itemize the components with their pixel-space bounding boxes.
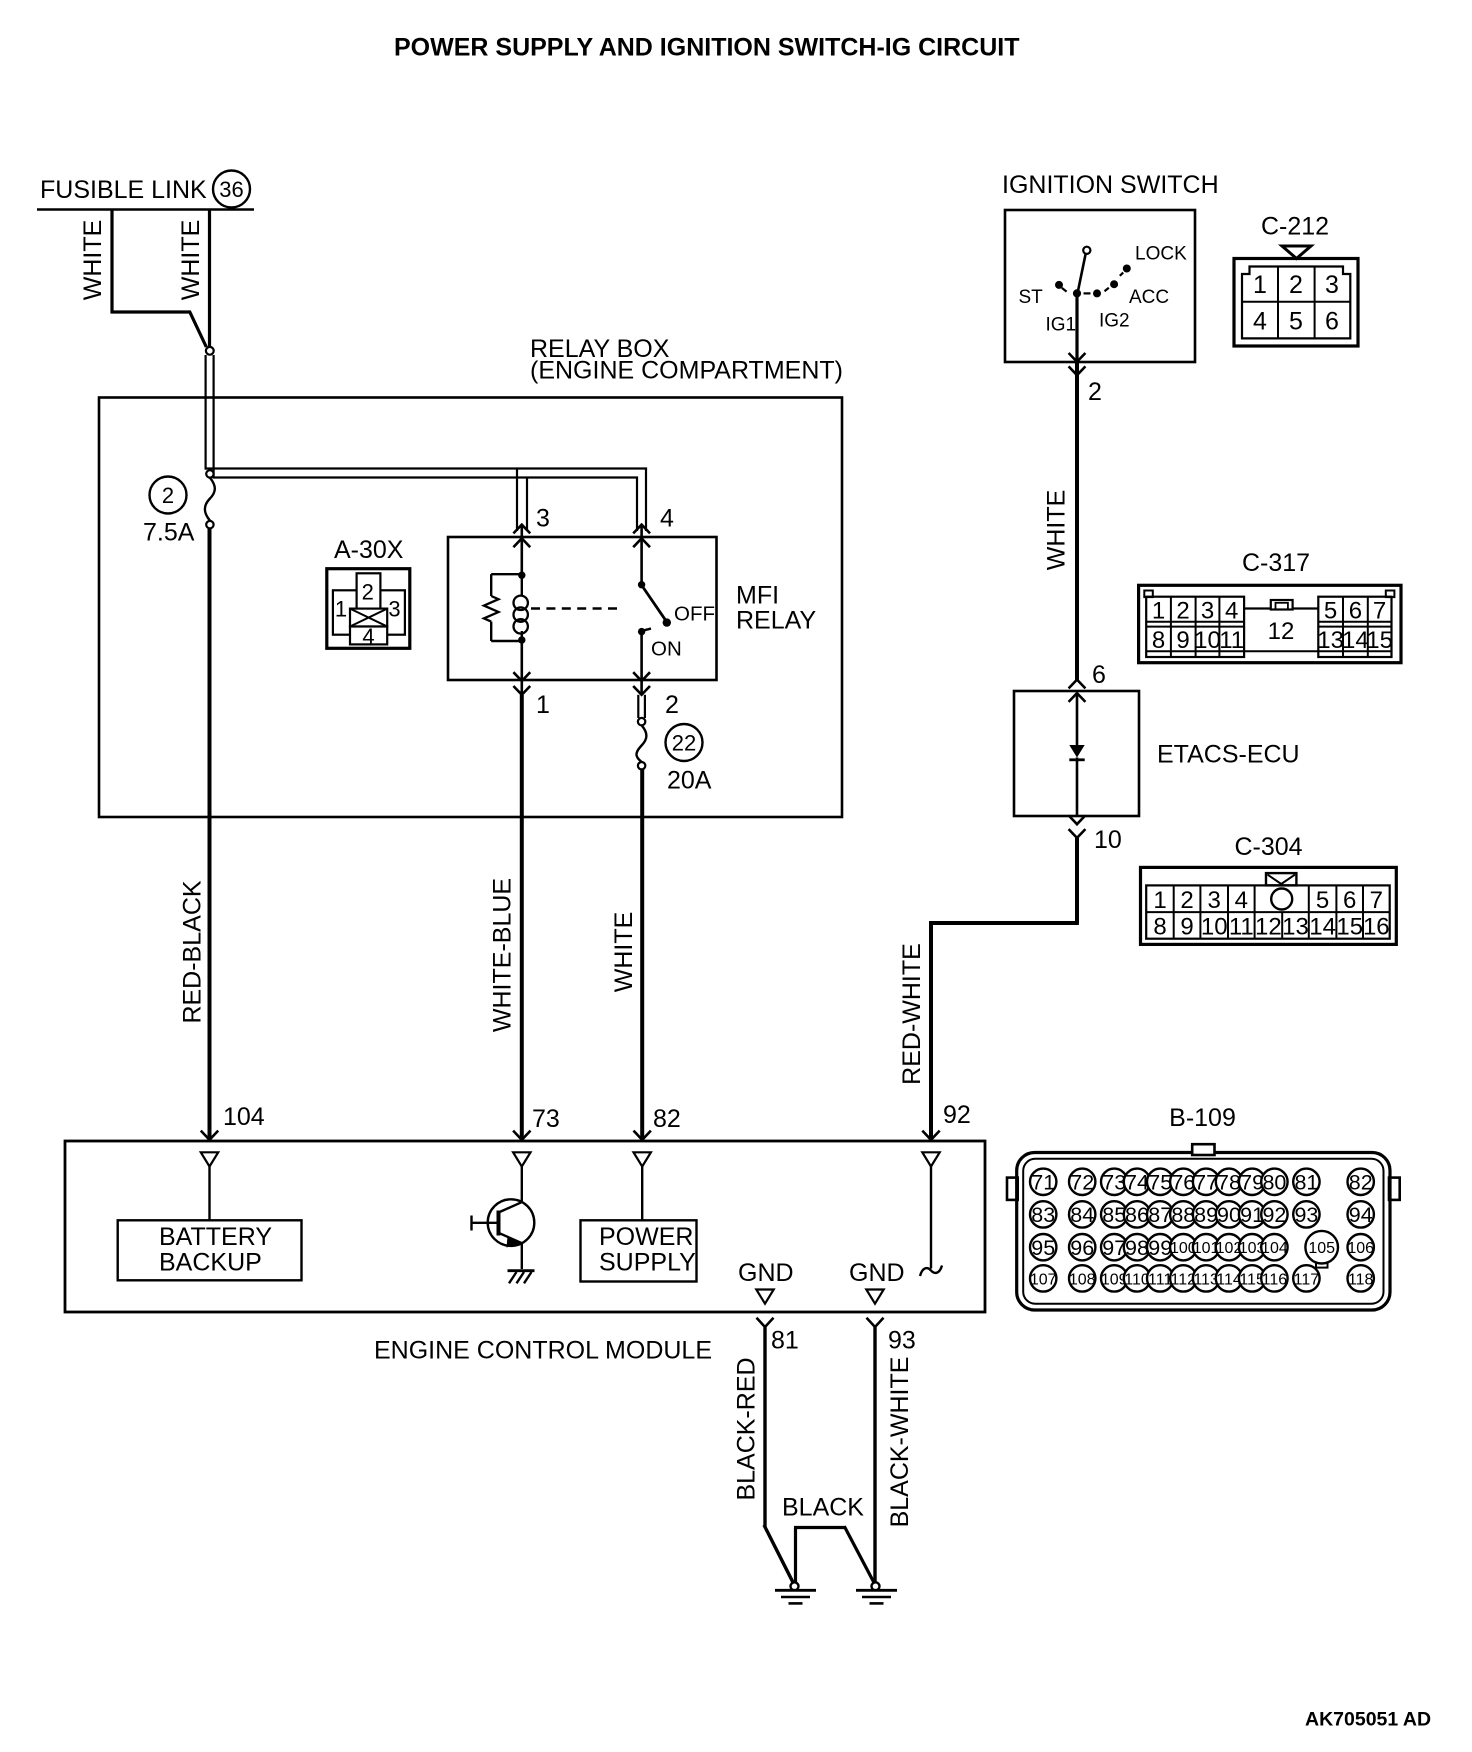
svg-text:POWER: POWER xyxy=(599,1223,693,1251)
svg-text:9: 9 xyxy=(1176,627,1189,654)
svg-text:97: 97 xyxy=(1102,1236,1126,1260)
svg-text:C-317: C-317 xyxy=(1242,549,1310,577)
svg-text:2: 2 xyxy=(1088,378,1102,406)
svg-text:118: 118 xyxy=(1348,1271,1374,1288)
svg-text:GND: GND xyxy=(849,1259,905,1287)
svg-text:A-30X: A-30X xyxy=(334,536,404,564)
svg-text:77: 77 xyxy=(1194,1171,1218,1195)
svg-text:116: 116 xyxy=(1262,1271,1288,1288)
svg-text:82: 82 xyxy=(1349,1171,1373,1195)
svg-text:72: 72 xyxy=(1070,1171,1094,1195)
svg-text:BLACK-WHITE: BLACK-WHITE xyxy=(886,1357,914,1528)
svg-text:WHITE: WHITE xyxy=(610,912,638,993)
svg-text:SUPPLY: SUPPLY xyxy=(599,1249,696,1277)
svg-text:4: 4 xyxy=(362,624,374,649)
svg-text:93: 93 xyxy=(888,1327,916,1355)
svg-text:WHITE: WHITE xyxy=(79,220,107,301)
svg-text:OFF: OFF xyxy=(674,603,715,626)
svg-text:85: 85 xyxy=(1102,1203,1126,1227)
svg-text:13: 13 xyxy=(1282,914,1309,941)
svg-text:6: 6 xyxy=(1349,598,1362,625)
svg-text:15: 15 xyxy=(1336,914,1363,941)
svg-text:RED-WHITE: RED-WHITE xyxy=(898,943,926,1085)
svg-text:117: 117 xyxy=(1294,1271,1320,1288)
svg-text:7: 7 xyxy=(1370,887,1383,914)
svg-text:WHITE-BLUE: WHITE-BLUE xyxy=(489,878,517,1032)
svg-text:4: 4 xyxy=(1235,887,1248,914)
svg-text:96: 96 xyxy=(1070,1236,1094,1260)
svg-text:7: 7 xyxy=(1373,598,1386,625)
svg-text:4: 4 xyxy=(1225,598,1238,625)
svg-text:4: 4 xyxy=(1253,308,1267,336)
svg-text:RELAY: RELAY xyxy=(736,607,816,635)
svg-text:ST: ST xyxy=(1019,287,1044,308)
svg-text:3: 3 xyxy=(1325,271,1339,299)
svg-text:ETACS-ECU: ETACS-ECU xyxy=(1157,741,1300,769)
svg-text:111: 111 xyxy=(1148,1271,1172,1288)
svg-text:5: 5 xyxy=(1289,308,1303,336)
svg-text:7.5A: 7.5A xyxy=(143,519,195,547)
svg-text:81: 81 xyxy=(771,1327,799,1355)
svg-text:80: 80 xyxy=(1262,1171,1286,1195)
svg-text:ON: ON xyxy=(651,638,682,661)
svg-text:95: 95 xyxy=(1031,1236,1055,1260)
svg-text:6: 6 xyxy=(1343,887,1356,914)
svg-text:82: 82 xyxy=(653,1105,681,1133)
svg-text:WHITE: WHITE xyxy=(1043,490,1071,571)
svg-text:14: 14 xyxy=(1342,627,1369,654)
svg-text:11: 11 xyxy=(1219,627,1244,654)
svg-text:93: 93 xyxy=(1294,1203,1318,1227)
svg-text:BATTERY: BATTERY xyxy=(159,1223,272,1251)
svg-text:ACC: ACC xyxy=(1129,287,1169,308)
svg-text:3: 3 xyxy=(1201,598,1214,625)
svg-text:BACKUP: BACKUP xyxy=(159,1249,262,1277)
svg-text:108: 108 xyxy=(1069,1271,1096,1288)
svg-text:84: 84 xyxy=(1070,1203,1094,1227)
svg-text:6: 6 xyxy=(1325,308,1339,336)
svg-text:105: 105 xyxy=(1308,1240,1335,1257)
svg-text:83: 83 xyxy=(1031,1203,1055,1227)
svg-text:9: 9 xyxy=(1180,914,1193,941)
svg-text:86: 86 xyxy=(1125,1203,1149,1227)
svg-text:87: 87 xyxy=(1148,1203,1172,1227)
svg-text:POWER SUPPLY AND IGNITION SWIT: POWER SUPPLY AND IGNITION SWITCH-IG CIRC… xyxy=(394,34,1020,62)
svg-text:1: 1 xyxy=(335,597,347,622)
svg-text:81: 81 xyxy=(1294,1171,1318,1195)
svg-text:(ENGINE COMPARTMENT): (ENGINE COMPARTMENT) xyxy=(530,357,843,385)
svg-text:BLACK: BLACK xyxy=(782,1494,864,1522)
svg-text:10: 10 xyxy=(1201,914,1228,941)
svg-text:107: 107 xyxy=(1030,1271,1057,1288)
svg-text:73: 73 xyxy=(532,1105,560,1133)
svg-text:1: 1 xyxy=(1152,598,1165,625)
svg-text:73: 73 xyxy=(1102,1171,1126,1195)
svg-text:20A: 20A xyxy=(667,767,712,795)
svg-text:RED-BLACK: RED-BLACK xyxy=(179,880,207,1023)
svg-text:8: 8 xyxy=(1152,627,1165,654)
svg-text:78: 78 xyxy=(1217,1171,1241,1195)
svg-text:3: 3 xyxy=(388,597,400,622)
svg-text:IG1: IG1 xyxy=(1046,315,1077,336)
svg-text:75: 75 xyxy=(1148,1171,1172,1195)
svg-text:2: 2 xyxy=(665,691,679,719)
svg-text:WHITE: WHITE xyxy=(177,220,205,301)
svg-text:14: 14 xyxy=(1309,914,1336,941)
svg-text:10: 10 xyxy=(1194,627,1221,654)
svg-text:LOCK: LOCK xyxy=(1135,244,1187,265)
svg-text:74: 74 xyxy=(1125,1171,1149,1195)
svg-text:11: 11 xyxy=(1229,914,1254,941)
svg-text:94: 94 xyxy=(1349,1203,1373,1227)
svg-text:5: 5 xyxy=(1324,598,1337,625)
svg-text:2: 2 xyxy=(1176,598,1189,625)
svg-text:5: 5 xyxy=(1316,887,1329,914)
svg-text:89: 89 xyxy=(1194,1203,1218,1227)
svg-text:106: 106 xyxy=(1347,1240,1374,1257)
svg-text:104: 104 xyxy=(1261,1240,1288,1257)
svg-text:C-304: C-304 xyxy=(1234,833,1302,861)
svg-text:8: 8 xyxy=(1153,914,1166,941)
svg-text:16: 16 xyxy=(1363,914,1390,941)
svg-text:10: 10 xyxy=(1094,826,1122,854)
svg-text:92: 92 xyxy=(943,1101,971,1129)
svg-text:88: 88 xyxy=(1171,1203,1195,1227)
svg-text:2: 2 xyxy=(1180,887,1193,914)
svg-text:36: 36 xyxy=(219,177,243,202)
svg-text:22: 22 xyxy=(672,731,696,756)
svg-text:12: 12 xyxy=(1255,914,1282,941)
svg-text:6: 6 xyxy=(1092,661,1106,689)
svg-text:C-212: C-212 xyxy=(1261,213,1329,241)
svg-text:2: 2 xyxy=(362,580,374,605)
svg-text:MFI: MFI xyxy=(736,582,779,610)
svg-text:FUSIBLE LINK: FUSIBLE LINK xyxy=(40,176,207,204)
svg-text:4: 4 xyxy=(660,505,674,533)
svg-text:71: 71 xyxy=(1031,1171,1055,1195)
svg-text:AK705051 AD: AK705051 AD xyxy=(1305,1709,1431,1731)
svg-text:3: 3 xyxy=(1208,887,1221,914)
svg-text:1: 1 xyxy=(1253,271,1267,299)
svg-text:IGNITION SWITCH: IGNITION SWITCH xyxy=(1002,171,1219,199)
svg-text:12: 12 xyxy=(1268,618,1295,645)
svg-text:104: 104 xyxy=(223,1103,265,1131)
svg-text:13: 13 xyxy=(1317,627,1344,654)
svg-text:3: 3 xyxy=(536,505,550,533)
svg-text:BLACK-RED: BLACK-RED xyxy=(733,1357,761,1500)
svg-text:2: 2 xyxy=(162,483,174,508)
svg-text:IG2: IG2 xyxy=(1099,311,1130,332)
svg-text:99: 99 xyxy=(1148,1236,1172,1260)
svg-text:1: 1 xyxy=(1153,887,1166,914)
svg-text:2: 2 xyxy=(1289,271,1303,299)
svg-text:1: 1 xyxy=(536,691,550,719)
svg-text:98: 98 xyxy=(1125,1236,1149,1260)
svg-text:76: 76 xyxy=(1171,1171,1195,1195)
svg-text:ENGINE CONTROL MODULE: ENGINE CONTROL MODULE xyxy=(374,1337,712,1365)
svg-text:92: 92 xyxy=(1262,1203,1286,1227)
svg-text:GND: GND xyxy=(738,1259,794,1287)
svg-text:90: 90 xyxy=(1217,1203,1241,1227)
svg-text:B-109: B-109 xyxy=(1169,1104,1236,1132)
svg-text:15: 15 xyxy=(1366,627,1393,654)
